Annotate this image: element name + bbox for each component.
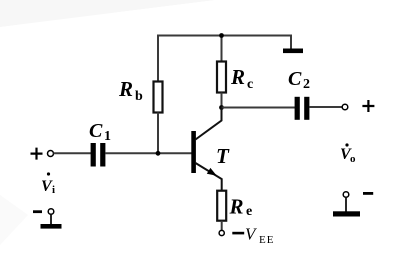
wire Rc top lead: [221, 36, 223, 63]
transistor Q1 emitter: [196, 163, 222, 191]
wire input to C1: [54, 152, 92, 154]
svg-text:C: C: [89, 120, 103, 142]
wire input ground lead: [50, 214, 52, 225]
wire C1 to base: [105, 152, 191, 154]
label output minus: [363, 192, 373, 195]
node -VEE terminal: [219, 230, 224, 235]
node output - terminal: [343, 192, 349, 198]
svg-text:EE: EE: [259, 234, 274, 246]
svg-text:c: c: [247, 77, 253, 92]
svg-text:R: R: [229, 195, 244, 219]
svg-text:T: T: [216, 144, 230, 168]
ground input: [41, 224, 62, 229]
label input minus: [33, 210, 42, 213]
wire collector to C2: [222, 107, 296, 109]
svg-text:b: b: [135, 89, 143, 104]
resistor Re: [217, 191, 226, 221]
resistor Rc: [217, 62, 226, 93]
wire output ground lead: [345, 197, 347, 212]
capacitor C1: [91, 143, 96, 167]
svg-text:1: 1: [104, 129, 111, 144]
wire top rail: [158, 35, 292, 37]
transistor Q1 collector: [196, 108, 222, 140]
svg-text:o: o: [350, 153, 356, 165]
node top junction dot: [219, 33, 224, 38]
svg-text:R: R: [118, 77, 133, 101]
node base junction dot: [156, 151, 161, 156]
capacitor C2: [295, 97, 300, 120]
svg-text:V: V: [245, 225, 258, 244]
transistor Q1 emitter arrow: [207, 168, 217, 176]
label output plus: [362, 100, 374, 112]
node collector junction dot: [219, 105, 224, 110]
svg-text:e: e: [246, 204, 252, 219]
svg-text:i: i: [52, 184, 55, 196]
svg-text:R: R: [230, 65, 245, 89]
resistor Rb: [154, 82, 163, 113]
node input + terminal: [48, 151, 54, 157]
wire Rb top lead: [157, 35, 159, 83]
svg-text:2: 2: [303, 77, 310, 92]
wire Rb bottom lead: [157, 113, 159, 154]
wire C2 to output terminal: [309, 106, 342, 108]
wire Rc bottom lead: [221, 93, 223, 109]
wire top-right supply lead: [290, 36, 292, 50]
wire Re bottom lead: [221, 221, 223, 231]
label -VEE: [232, 232, 244, 235]
node output + terminal: [342, 104, 348, 110]
transistor Q1 base bar: [191, 131, 196, 173]
ground output: [333, 211, 360, 216]
svg-text:C: C: [288, 68, 302, 90]
node input - terminal: [48, 209, 54, 215]
ground top-right bar: [283, 49, 303, 54]
label input plus: [31, 148, 43, 160]
